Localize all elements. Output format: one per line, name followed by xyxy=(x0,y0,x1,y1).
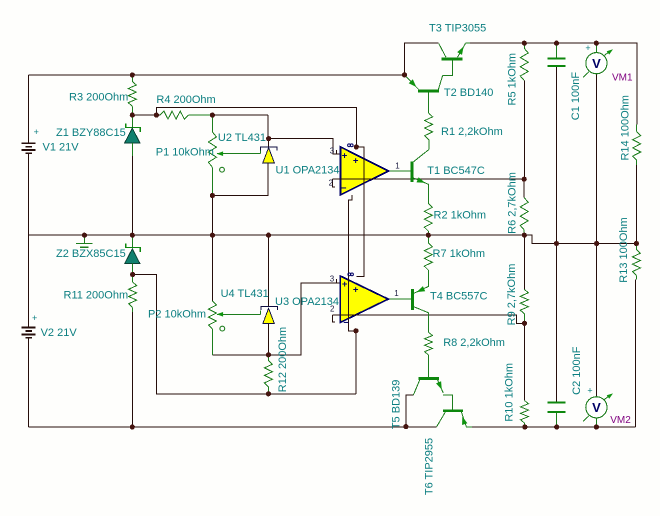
svg-text:R13 100Ohm: R13 100Ohm xyxy=(618,217,630,282)
svg-text:+: + xyxy=(353,156,359,167)
svg-text:V2 21V: V2 21V xyxy=(41,327,78,339)
svg-text:R12 200Ohm: R12 200Ohm xyxy=(277,327,289,392)
svg-text:U2 TL431: U2 TL431 xyxy=(218,132,266,144)
svg-text:U3 OPA2134: U3 OPA2134 xyxy=(275,296,339,308)
svg-text:T3 TIP3055: T3 TIP3055 xyxy=(429,23,486,35)
svg-text:R10 1kOhm: R10 1kOhm xyxy=(504,363,516,422)
svg-text:+: + xyxy=(34,127,39,137)
svg-text:C1 100nF: C1 100nF xyxy=(570,72,582,121)
svg-text:VM2: VM2 xyxy=(610,415,631,426)
svg-text:1: 1 xyxy=(394,289,399,298)
svg-text:R1 2,2kOhm: R1 2,2kOhm xyxy=(441,126,503,138)
svg-text:−: − xyxy=(341,183,347,194)
svg-text:V: V xyxy=(592,400,601,415)
svg-text:R14 100Ohm: R14 100Ohm xyxy=(619,95,631,160)
svg-text:U4 TL431: U4 TL431 xyxy=(221,288,269,300)
svg-text:T4 BC557C: T4 BC557C xyxy=(430,291,488,303)
svg-text:3: 3 xyxy=(330,147,335,156)
svg-text:+: + xyxy=(587,386,592,396)
svg-text:Z1 BZY88C15: Z1 BZY88C15 xyxy=(56,127,126,139)
svg-text:2: 2 xyxy=(329,179,334,188)
svg-text:U1 OPA2134: U1 OPA2134 xyxy=(276,165,340,177)
svg-text:R8 2,2kOhm: R8 2,2kOhm xyxy=(443,337,505,349)
svg-text:+: + xyxy=(32,313,37,323)
svg-text:Z2 BZX85C15: Z2 BZX85C15 xyxy=(56,248,126,260)
svg-text:+: + xyxy=(342,151,348,162)
svg-text:V1 21V: V1 21V xyxy=(43,141,80,153)
svg-text:R2 1kOhm: R2 1kOhm xyxy=(434,210,487,222)
svg-text:T1 BC547C: T1 BC547C xyxy=(427,165,485,177)
svg-text:T2 BD140: T2 BD140 xyxy=(444,87,494,99)
svg-text:P1 10kOhm: P1 10kOhm xyxy=(156,147,214,159)
svg-text:V: V xyxy=(592,56,601,71)
svg-text:R5 1kOhm: R5 1kOhm xyxy=(506,53,518,106)
svg-text:VM1: VM1 xyxy=(612,73,633,84)
svg-text:+: + xyxy=(585,43,590,53)
svg-text:R3 200Ohm: R3 200Ohm xyxy=(69,91,128,103)
svg-text:−: − xyxy=(343,318,349,329)
svg-text:R11 200Ohm: R11 200Ohm xyxy=(64,289,129,301)
svg-text:R7 1kOhm: R7 1kOhm xyxy=(433,248,486,260)
svg-text:R6 2,7kOhm: R6 2,7kOhm xyxy=(506,172,518,234)
svg-text:3: 3 xyxy=(330,275,335,284)
svg-text:R9 2,7kOhm: R9 2,7kOhm xyxy=(506,264,518,326)
svg-text:T5 BD139: T5 BD139 xyxy=(391,380,403,430)
svg-text:C2 100nF: C2 100nF xyxy=(571,346,583,395)
svg-text:1: 1 xyxy=(395,161,400,170)
svg-text:+: + xyxy=(353,284,359,295)
svg-text:P2 10kOhm: P2 10kOhm xyxy=(148,308,206,320)
svg-text:R4 200Ohm: R4 200Ohm xyxy=(156,94,215,106)
svg-text:+: + xyxy=(342,279,348,290)
svg-text:T6 TIP2955: T6 TIP2955 xyxy=(424,438,436,495)
